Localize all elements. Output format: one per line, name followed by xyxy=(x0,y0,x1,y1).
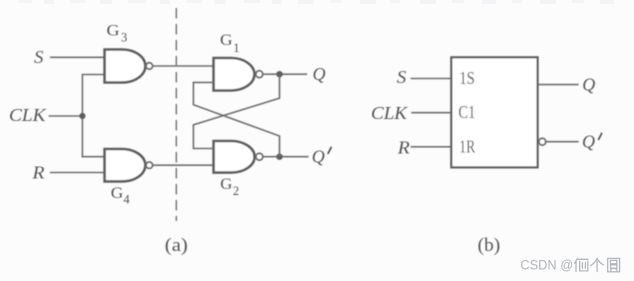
wire G2 output to Q' xyxy=(263,156,309,158)
flip-flop box (part b) xyxy=(451,57,537,167)
svg-text:Q: Q xyxy=(313,64,326,84)
svg-text:(b): (b) xyxy=(478,235,501,256)
svg-text:C1: C1 xyxy=(458,102,475,122)
wire G3 output to G1 xyxy=(153,65,214,67)
svg-text:2: 2 xyxy=(233,184,239,198)
bubble G3 xyxy=(146,63,152,69)
svg-text:G: G xyxy=(111,185,124,202)
bubble Q' (part b) xyxy=(539,138,546,145)
wire CLK branch to G4 xyxy=(82,156,106,158)
svg-text:G: G xyxy=(220,176,232,193)
svg-text:Q: Q xyxy=(582,131,595,151)
nand gate G1 xyxy=(214,58,255,91)
wire G4 output to G2 xyxy=(153,164,214,166)
nand gate G2 xyxy=(214,141,255,173)
svg-text:R: R xyxy=(31,162,44,182)
svg-text:S: S xyxy=(397,67,407,87)
wire S input (part b) xyxy=(411,78,452,80)
svg-text:4: 4 xyxy=(123,193,130,207)
svg-text:Q: Q xyxy=(312,147,325,167)
wire R to G4 xyxy=(50,172,106,174)
dashed partition line xyxy=(175,8,177,221)
wire CLK branch to G3 xyxy=(82,74,106,76)
watermark char 俩 xyxy=(575,259,589,272)
svg-text:1: 1 xyxy=(233,41,239,55)
svg-text:CSDN @: CSDN @ xyxy=(520,258,573,274)
svg-text:G: G xyxy=(220,32,233,49)
wire CLK input (part b) xyxy=(411,112,451,114)
wire G1 output to Q xyxy=(263,73,307,75)
svg-text:1S: 1S xyxy=(459,68,475,88)
wire R input (part b) xyxy=(411,146,452,148)
wire CLK vertical branch xyxy=(81,75,83,157)
svg-text:S: S xyxy=(34,47,44,67)
wire Q output (part b) xyxy=(538,84,579,86)
bubble G1 xyxy=(256,71,263,78)
bubble G4 xyxy=(146,162,152,168)
svg-text:R: R xyxy=(397,138,410,158)
watermark char 个 xyxy=(591,259,604,272)
nand gate G4 xyxy=(105,149,146,181)
wire feedback Q' to G1 input xyxy=(193,82,279,156)
junction dot Q' xyxy=(276,154,282,160)
svg-text:1R: 1R xyxy=(459,137,475,157)
wire S to G3 xyxy=(50,56,106,58)
svg-text:CLK: CLK xyxy=(9,105,47,125)
wire feedback Q to G2 input xyxy=(193,74,279,148)
nand gate G3 xyxy=(105,50,146,83)
label Q prime tick (part a) xyxy=(328,147,331,153)
wire Q' output (part b) xyxy=(546,141,579,143)
label Q prime tick (part b) xyxy=(599,133,602,139)
wire CLK to junction xyxy=(49,115,83,117)
svg-text:Q: Q xyxy=(582,75,595,95)
svg-text:G: G xyxy=(107,23,120,40)
junction dot CLK xyxy=(79,113,85,119)
svg-text:3: 3 xyxy=(121,31,127,45)
svg-text:CLK: CLK xyxy=(371,103,408,123)
svg-text:(a): (a) xyxy=(165,235,188,256)
watermark char 圆 xyxy=(608,258,620,271)
junction dot Q xyxy=(276,71,282,77)
bubble G2 xyxy=(256,153,263,160)
